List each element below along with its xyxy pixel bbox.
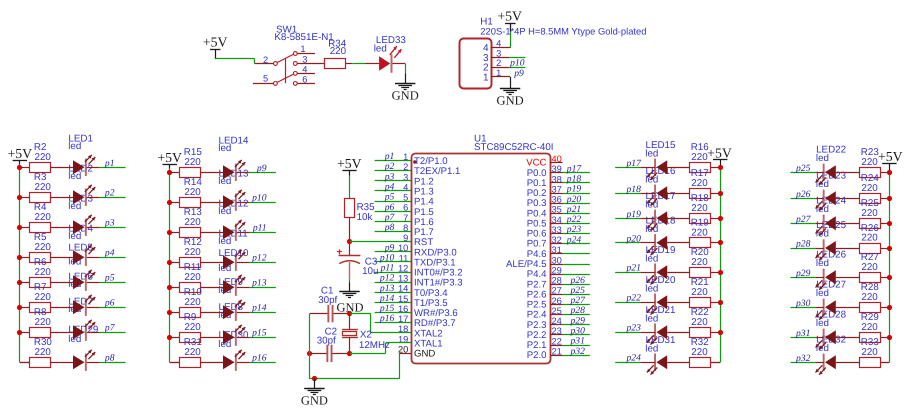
LED LED7 [73, 320, 95, 341]
svg-text:GND: GND [497, 94, 524, 108]
capacitor C3 [337, 249, 379, 277]
wire bus-to-resistor R11 [170, 287, 180, 289]
+5V power SW1 [203, 34, 228, 49]
wire resistor-to-led R10-LED9 [200, 312, 223, 314]
label LED LED4 [68, 223, 93, 242]
svg-text:led: led [374, 44, 387, 55]
resistor R24 [860, 173, 881, 203]
label LED LED8 [218, 302, 243, 321]
wire bus-to-resistor R3 [20, 197, 30, 199]
pin U1-33 P0.6 [527, 225, 563, 240]
LED LED8 [223, 325, 245, 346]
pin H1-2 [491, 58, 509, 68]
label LED LED18 [645, 216, 676, 236]
wire bus-to-resistor R16 [711, 167, 720, 169]
svg-text:p10: p10 [509, 58, 525, 69]
wire net p7 [375, 221, 411, 223]
svg-text:p25: p25 [795, 163, 811, 174]
resistor R25 [860, 198, 881, 228]
svg-text:p6: p6 [104, 298, 115, 309]
pin U1-14 T0/P3.4 [398, 284, 448, 299]
wire net p22 U1 [563, 223, 590, 225]
label LED LED9 [218, 277, 243, 296]
LED LED30 [223, 350, 245, 371]
svg-text:30: 30 [552, 255, 562, 265]
wire led-to-resistor LED25-R26 [836, 248, 860, 250]
label LED LED2 [68, 163, 93, 182]
pin U1-23 P2.2 [527, 326, 563, 341]
wire net p14 [375, 302, 411, 304]
wire bus-to-resistor R26 [881, 248, 889, 250]
svg-text:p12: p12 [251, 253, 267, 264]
wire bus-to-resistor R28 [881, 307, 889, 309]
wire led-to-resistor LED21-R22 [667, 332, 689, 334]
wire +5V stem block2 [169, 164, 171, 169]
svg-text:p18: p18 [626, 184, 642, 195]
svg-text:220: 220 [184, 247, 201, 258]
wire led-red LED25 [816, 248, 824, 250]
junction block1 row4 [17, 255, 22, 260]
wire GND net bottom [310, 353, 412, 379]
junction block2 row1 [167, 170, 172, 175]
wire net p1 [100, 167, 126, 169]
wire C2 left [310, 353, 327, 355]
+5V power block1 [7, 146, 32, 161]
wire C3-to-GND [349, 262, 351, 292]
label LED LED27 [816, 279, 846, 298]
svg-text:p14: p14 [251, 303, 267, 314]
pin SW1-1 [297, 44, 315, 54]
junction block3 row5 [718, 270, 723, 275]
junction block3 row4 [718, 240, 723, 245]
wire bus-to-resistor R23 [881, 172, 889, 174]
pin U1-40 VCC [526, 154, 562, 169]
svg-text:220: 220 [691, 347, 708, 358]
svg-text:+5V: +5V [203, 34, 228, 49]
svg-text:p16: p16 [251, 353, 267, 364]
pin U1-26 P2.5 [527, 296, 563, 311]
pin SW1-5 [253, 73, 274, 83]
resistor R17 [690, 168, 711, 198]
wire net p11 [375, 272, 411, 274]
LED LED11 [223, 250, 245, 271]
svg-text:220: 220 [35, 267, 52, 278]
junction block1 row5 [17, 280, 22, 285]
pin U1-36 P0.3 [527, 195, 563, 210]
wire bus-to-resistor R5 [20, 257, 30, 259]
junction block3 row2 [718, 191, 723, 196]
wire +5V stem block3 [720, 159, 722, 167]
wire +5V bus block4 [889, 172, 891, 362]
junction block2 row6 [167, 310, 172, 315]
resistor R20 [690, 247, 711, 277]
label LED LED28 [816, 309, 847, 328]
wire net p18 U1 [563, 182, 590, 184]
LED LED10 [223, 275, 245, 296]
LED LED25 [816, 239, 836, 260]
wire net p8 [375, 231, 411, 233]
wire GND stem [314, 379, 316, 388]
junction block1 row2 [17, 195, 22, 200]
pin U1-6 P1.5 [403, 203, 434, 218]
wire R34-to-LED33 [346, 63, 379, 65]
svg-text:p8: p8 [104, 353, 115, 364]
LED LED33 [374, 35, 407, 73]
svg-text:10u: 10u [362, 266, 378, 277]
+5V power block4 [878, 149, 903, 164]
junction block4 row6 [887, 305, 892, 310]
wire net p10 [375, 261, 411, 263]
wire net p3 [375, 180, 411, 182]
label LED LED22 [816, 144, 846, 163]
pin U1-27 P2.6 [527, 286, 563, 301]
wire bus-to-resistor R29 [881, 337, 889, 339]
label LED LED30 [218, 330, 249, 350]
resistor R2 [30, 142, 52, 172]
svg-text:led: led [645, 149, 658, 160]
svg-text:GND: GND [414, 349, 435, 360]
wire bus-to-resistor R8 [20, 332, 30, 334]
svg-text:220: 220 [861, 233, 878, 244]
wire +5V-to-H1pin4 [510, 23, 512, 48]
resistor R33 [860, 337, 881, 367]
wire led-red LED32 [816, 362, 824, 364]
svg-text:p5: p5 [104, 273, 115, 284]
svg-text:+5V: +5V [337, 156, 362, 171]
LED LED19 [647, 264, 667, 285]
wire led-red LED19 [640, 272, 655, 274]
junction block2 row5 [167, 285, 172, 290]
junction block3 row7 [718, 330, 723, 335]
svg-text:p20: p20 [626, 233, 642, 244]
label LED LED13 [218, 168, 249, 187]
svg-text:2: 2 [263, 55, 268, 65]
wire bus-to-resistor R27 [881, 277, 889, 279]
wire led-red LED21 [640, 332, 655, 334]
wire led-to-resistor LED24-R25 [836, 223, 860, 225]
wire bus-to-resistor R32 [711, 362, 720, 364]
wire led-to-resistor LED17-R18 [667, 218, 689, 220]
svg-text:220: 220 [184, 272, 201, 283]
wire net p26 U1 [563, 284, 590, 286]
svg-text:p2: p2 [104, 188, 115, 199]
wire bus-to-resistor R2 [20, 167, 30, 169]
svg-text:K8-5851E-N1: K8-5851E-N1 [274, 32, 333, 43]
label LED LED1 [68, 133, 93, 152]
LED LED23 [816, 190, 836, 211]
pin SW1-2 [263, 55, 268, 65]
svg-text:+5V: +5V [878, 149, 903, 164]
+5V power block2 [157, 150, 182, 165]
wire led-to-resistor LED28-R29 [836, 337, 860, 339]
svg-text:+5V: +5V [707, 145, 732, 160]
wire bus-to-resistor R20 [711, 272, 720, 274]
LED LED20 [647, 294, 667, 315]
svg-text:p29: p29 [795, 268, 811, 279]
svg-text:220: 220 [35, 212, 52, 223]
resistor R32 [690, 337, 711, 367]
pin U1-3 P1.2 [403, 172, 434, 187]
wire led-to-net LED14 [237, 172, 250, 174]
wire bus-to-resistor R15 [170, 172, 180, 174]
wire net p10 [250, 202, 276, 204]
pin U1-16 WR#/P3.6 [398, 304, 458, 319]
LED LED24 [816, 215, 836, 236]
svg-text:led: led [816, 258, 829, 269]
pin U1-20 GND [398, 345, 435, 360]
label LED LED3 [68, 193, 93, 212]
wire net p17 U1 [563, 172, 590, 174]
pin U1-35 P0.4 [527, 205, 563, 220]
wire bus-to-resistor R17 [711, 193, 720, 195]
svg-text:p4: p4 [104, 248, 115, 259]
wire +5V bus block2 [169, 168, 171, 362]
wire led-to-resistor LED16-R17 [667, 193, 689, 195]
resistor R29 [860, 312, 881, 342]
wire led-to-net LED13 [237, 202, 250, 204]
wire led-red LED15 [640, 167, 655, 169]
svg-text:1: 1 [300, 44, 305, 54]
resistor R14 [180, 177, 203, 207]
svg-text:p28: p28 [795, 239, 811, 250]
ground main [301, 389, 328, 408]
svg-text:220: 220 [861, 157, 878, 168]
wire R35-to-RST [349, 217, 351, 241]
svg-text:p32: p32 [570, 346, 586, 357]
wire resistor-to-led R31-LED30 [200, 362, 223, 364]
resistor R22 [690, 307, 711, 337]
LED LED28 [816, 329, 836, 350]
wire net p30 U1 [563, 334, 590, 336]
wire net p24 U1 [563, 243, 590, 245]
LED LED15 [647, 159, 667, 180]
wire C1 right [334, 313, 350, 315]
label LED LED29 [68, 325, 98, 345]
wire bus-to-resistor R14 [170, 202, 180, 204]
svg-text:30pf: 30pf [317, 336, 336, 347]
svg-text:220: 220 [691, 228, 708, 239]
wire led-to-net LED9 [237, 312, 250, 314]
wire led-to-net LED6 [87, 307, 100, 309]
wire bus-to-resistor R12 [170, 262, 180, 264]
wire net p19 [615, 218, 640, 220]
wire +5V stem block4 [889, 163, 891, 172]
svg-text:p11: p11 [252, 223, 267, 234]
svg-text:STC89C52RC-40I: STC89C52RC-40I [474, 142, 554, 153]
+5V power H1 [497, 9, 522, 24]
wire C1-C2 left vertical [309, 314, 311, 354]
wire bus-to-resistor R9 [170, 337, 180, 339]
wire net p22 [615, 302, 640, 304]
pin U1-34 P0.5 [527, 215, 563, 230]
wire net p32 U1 [563, 355, 590, 357]
svg-text:220: 220 [691, 152, 708, 163]
svg-text:p10: p10 [251, 193, 267, 204]
wire resistor-to-led R14-LED13 [200, 202, 223, 204]
wire led-red LED20 [640, 302, 655, 304]
svg-text:GND: GND [392, 89, 419, 103]
label LED LED15 [645, 140, 676, 160]
svg-text:led: led [68, 141, 81, 152]
svg-text:220: 220 [35, 347, 52, 358]
label LED LED6 [68, 272, 93, 290]
wire H1 pin3 net [509, 57, 525, 59]
switch SW1 [274, 24, 334, 85]
wire resistor-to-led R13-LED12 [200, 232, 223, 234]
pin H1-1 [491, 68, 510, 78]
junction block1 row1 [17, 165, 22, 170]
svg-text:+5V: +5V [497, 9, 522, 24]
label LED LED17 [645, 191, 675, 211]
wire net p4 [375, 190, 411, 192]
wire led-to-resistor LED22-R23 [836, 172, 860, 174]
wire resistor-to-led R5-LED4 [50, 257, 73, 259]
label LED LED20 [645, 275, 676, 295]
pin U1-13 INT1#/P3.3 [398, 274, 463, 289]
svg-text:p32: p32 [795, 353, 811, 364]
svg-text:220: 220 [691, 178, 708, 189]
wire net p23 [615, 332, 640, 334]
svg-text:p1: p1 [104, 158, 115, 169]
svg-text:led: led [645, 284, 658, 295]
resistor R30 [30, 337, 53, 367]
svg-text:220: 220 [861, 322, 878, 333]
svg-text:220: 220 [861, 208, 878, 219]
resistor R3 [30, 172, 52, 202]
wire bus corner block3 row8 [711, 362, 720, 364]
LED LED31 [647, 354, 667, 375]
wire RST net [350, 241, 412, 243]
pin U1-30 ALE/P4.5 [506, 255, 563, 270]
svg-text:p27: p27 [795, 214, 812, 225]
wire led-red LED28 [816, 337, 824, 339]
svg-text:p22: p22 [626, 293, 642, 304]
wire led-to-resistor LED15-R16 [667, 167, 689, 169]
svg-text:+5V: +5V [157, 150, 182, 165]
wire net p7 [100, 332, 126, 334]
wire net p16 [250, 362, 276, 364]
wire net p25 U1 [563, 294, 590, 296]
pin U1-32 P0.7 [527, 235, 563, 250]
wire net p32 [791, 362, 816, 364]
wire led-red LED17 [640, 218, 655, 220]
resistor R8 [30, 307, 52, 337]
wire net p24 [615, 362, 640, 364]
pin U1-24 P2.3 [527, 316, 563, 331]
wire net p28 [791, 248, 816, 250]
wire net p3 [100, 227, 126, 229]
wire net p6 [375, 211, 411, 213]
svg-text:220: 220 [691, 257, 708, 268]
wire led-red LED22 [816, 172, 824, 174]
svg-text:p26: p26 [795, 189, 811, 200]
svg-text:220: 220 [861, 292, 878, 303]
label LED LED10 [218, 248, 249, 274]
svg-text:p21: p21 [626, 263, 641, 274]
wire led-red LED16 [640, 193, 655, 195]
svg-text:p17: p17 [626, 158, 643, 169]
wire net p27 [791, 223, 816, 225]
wire bus-to-resistor R19 [711, 242, 720, 244]
crystal X2 [342, 314, 390, 354]
junction block3 row6 [718, 300, 723, 305]
LED LED12 [223, 220, 245, 241]
wire led-to-resistor LED32-R33 [836, 362, 860, 364]
resistor R5 [30, 232, 52, 262]
IC U1 STC89C52RC-40I [412, 133, 554, 363]
LED LED14 [223, 160, 245, 181]
svg-text:led: led [645, 254, 658, 265]
LED LED4 [73, 245, 95, 266]
wire net p15 [375, 312, 411, 314]
svg-text:220: 220 [184, 187, 201, 198]
junction block4 row1 [887, 170, 892, 175]
wire C1 left [310, 313, 328, 315]
svg-text:10k: 10k [357, 212, 373, 223]
label LED LED32 [816, 334, 846, 353]
svg-text:led: led [218, 143, 231, 154]
wire +5V bus block3 [720, 167, 722, 362]
wire +5V-to-SW1 [215, 50, 274, 64]
resistor R11 [180, 262, 202, 292]
wire bus-to-resistor R25 [881, 223, 889, 225]
wire C2 right [333, 353, 350, 355]
capacitor C1 [318, 286, 337, 323]
pin U1-21 P2.0 [527, 347, 563, 362]
wire net p29 [791, 277, 816, 279]
wire net p5 [100, 282, 126, 284]
wire bus-to-resistor R4 [20, 227, 30, 229]
wire bus-to-resistor R33 [881, 362, 889, 364]
wire bus-to-resistor R22 [711, 332, 720, 334]
svg-text:22: 22 [552, 336, 562, 346]
label LED LED16 [645, 166, 676, 186]
connector H1 [460, 17, 647, 89]
svg-text:led: led [645, 344, 658, 355]
svg-text:p31: p31 [795, 328, 810, 339]
LED LED5 [73, 270, 95, 291]
wire resistor-to-led R11-LED10 [200, 287, 223, 289]
junction block1 row3 [17, 225, 22, 230]
wire net p29 U1 [563, 324, 590, 326]
svg-text:220: 220 [35, 317, 52, 328]
wire net p12 [250, 262, 276, 264]
svg-text:220: 220 [184, 217, 201, 228]
svg-text:+5V: +5V [7, 146, 32, 161]
svg-text:p3: p3 [104, 218, 115, 229]
wire net p20 U1 [563, 203, 590, 205]
pin U1-38 P0.1 [527, 174, 563, 189]
wire resistor-to-led R8-LED7 [50, 332, 73, 334]
resistor R35 [345, 199, 376, 223]
svg-text:220: 220 [330, 46, 347, 57]
+5V power R35 [337, 156, 362, 171]
pin U1-22 P2.1 [527, 336, 563, 351]
ground H1 [497, 89, 524, 108]
svg-text:220: 220 [35, 152, 52, 163]
wire net p16 [375, 322, 411, 324]
wire net p1 [375, 160, 411, 162]
wire net p30 [791, 307, 816, 309]
label LED LED12 [218, 198, 248, 217]
wire LED33-to-GND [393, 64, 406, 84]
wire led-to-net LED4 [87, 257, 100, 259]
wire H1 pin2 net p10 [509, 67, 525, 69]
wire net p4 [100, 257, 126, 259]
LED LED22 [816, 164, 836, 185]
wire bus-to-resistor R24 [881, 198, 889, 200]
pin U1-12 INT0#/P3.2 [398, 263, 463, 278]
